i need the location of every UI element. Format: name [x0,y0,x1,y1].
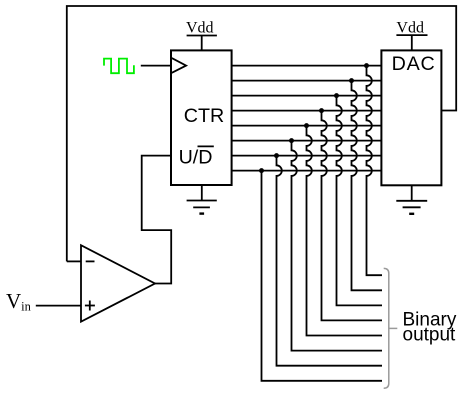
svg-text:Vdd: Vdd [186,20,214,37]
junction node bit 6 [349,78,354,83]
wire bit 5 tap with hops to binary output [337,96,383,306]
wire feedback top rail from DAC output to comparator inverting input [67,6,456,261]
bus wire bit 4 CTR to DAC [232,110,382,112]
junction node bit 4 [319,108,324,113]
clock edge-trigger triangle on CTR [172,58,186,73]
bus wire bit 2 CTR to DAC [232,140,382,142]
wire clock input to CTR [141,65,171,67]
wire bit 0 tap to binary output [262,171,383,381]
junction node bit 2 [289,138,294,143]
svg-text:CTR: CTR [184,105,224,127]
wire bit 3 tap with hops to binary output [307,126,383,336]
bus wire bit 3 CTR to DAC [232,125,382,127]
junction node bit 7 [364,63,369,68]
binary output bracket [384,268,398,388]
bus wire bit 5 CTR to DAC [232,95,382,97]
op-amp comparator [81,245,155,322]
bus wire bit 1 CTR to DAC [232,155,382,157]
svg-text:U/D: U/D [179,147,213,169]
wire Vdd stem to DAC [411,35,413,50]
wire bit 6 tap with hops to binary output [352,81,383,291]
svg-text:Vdd: Vdd [396,20,424,37]
ground below DAC [396,185,427,214]
Vdd rail bar over DAC [396,34,427,36]
ground below CTR [187,185,217,214]
wire comparator output to CTR U/D input [142,156,172,284]
wire comparator inverting input [67,260,81,262]
junction node bit 0 [259,168,264,173]
bus wire bit 0 CTR to DAC [232,170,382,172]
Vdd rail bar over CTR [187,35,217,37]
wire Vdd stem to CTR [201,36,203,51]
junction node bit 1 [274,153,279,158]
DAC box [381,50,441,185]
clock square-wave signal [104,59,134,74]
counter CTR box [171,50,232,185]
wire bit 1 tap with hops to binary output [277,156,383,366]
junction node bit 3 [304,123,309,128]
svg-text:Vin: Vin [6,289,32,314]
wire bit 7 tap with hops to binary output [367,66,383,276]
wire bit 4 tap with hops to binary output [322,111,383,321]
overbar on D [198,145,214,147]
junction node bit 5 [334,93,339,98]
bus wire bit 7 CTR to DAC [232,65,382,67]
svg-text:output: output [403,325,457,346]
wire Vin to comparator non-inverting input [36,305,81,307]
svg-text:DAC: DAC [392,53,436,75]
bus wire bit 6 CTR to DAC [232,80,382,82]
wire bit 2 tap with hops to binary output [292,141,383,351]
